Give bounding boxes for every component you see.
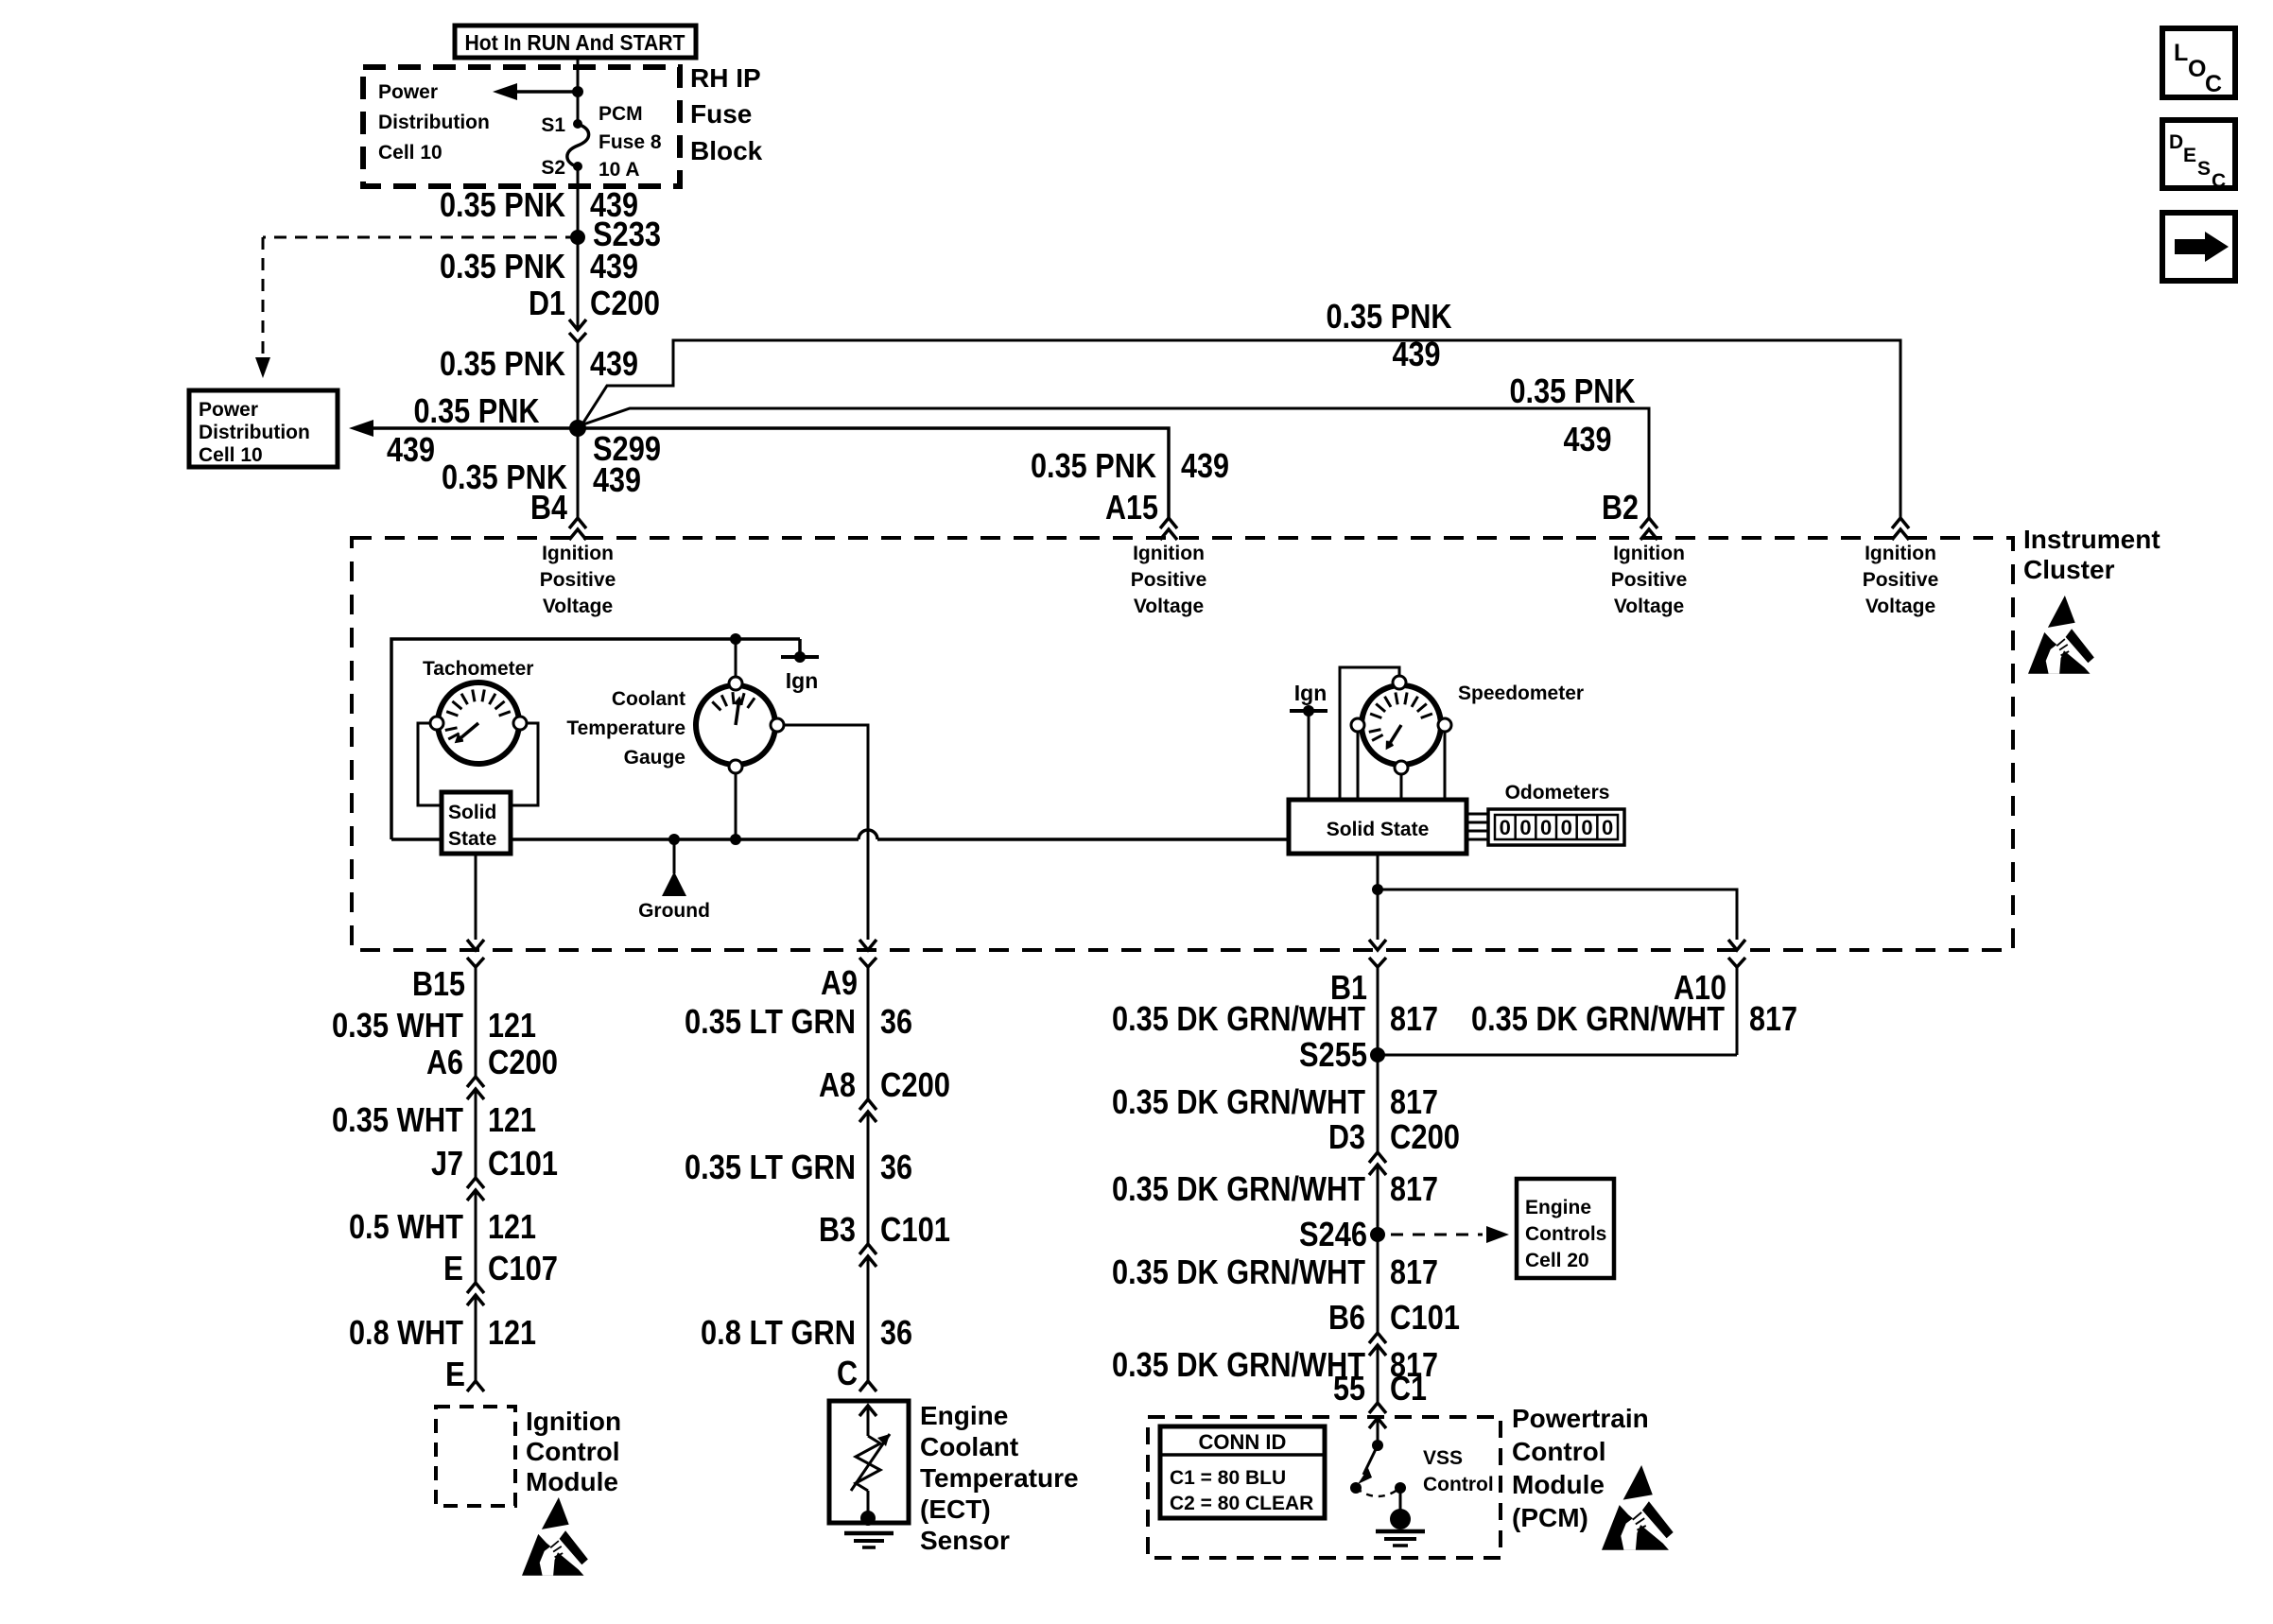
- svg-text:Power: Power: [378, 81, 438, 103]
- connector: instrument cluster A10 terminal: [1728, 940, 1745, 967]
- wire: 0.35 PNK 439 to Power Distribution Cell 10 (left arrow): [349, 420, 578, 437]
- svg-text:C200: C200: [590, 284, 660, 322]
- svg-text:Control: Control: [526, 1437, 620, 1466]
- Ignition Control Module label: [526, 1407, 621, 1496]
- svg-text:Cell 20: Cell 20: [1525, 1250, 1589, 1271]
- connector: C101 pin B3 (in-line): [859, 1244, 876, 1267]
- svg-text:Cell 10: Cell 10: [378, 142, 442, 164]
- svg-text:C101: C101: [488, 1144, 558, 1183]
- Ignition Positive Voltage label: [1131, 543, 1207, 617]
- svg-text:439: 439: [590, 247, 638, 285]
- svg-text:439: 439: [1181, 446, 1229, 485]
- svg-text:Odometers: Odometers: [1505, 782, 1610, 803]
- fuse F8: PCM Fuse 8 10A: [567, 124, 589, 166]
- ECT thermistor element: [851, 1406, 890, 1526]
- svg-text:C1 = 80 BLU: C1 = 80 BLU: [1170, 1467, 1286, 1489]
- svg-text:0.35 DK GRN/WHT: 0.35 DK GRN/WHT: [1112, 1345, 1365, 1384]
- dashed wire from S233 to Power Distribution: [255, 237, 578, 378]
- svg-text:817: 817: [1749, 999, 1797, 1038]
- svg-text:817: 817: [1390, 1253, 1438, 1291]
- svg-text:121: 121: [488, 1207, 536, 1246]
- coolant gauge terminals: [729, 677, 742, 690]
- dashed reference: S246 to Engine Controls Cell 20: [1391, 1226, 1509, 1243]
- wire: tach right terminal to solid state: [511, 723, 538, 805]
- svg-text:Positive: Positive: [1863, 569, 1939, 591]
- splice S255: [1370, 1047, 1385, 1063]
- wire: B15 0.35 WHT 121: [475, 967, 477, 1077]
- svg-text:PCM: PCM: [599, 103, 643, 125]
- svg-text:Module: Module: [1512, 1470, 1605, 1499]
- connector: PCM C1 pin 55: [1369, 1403, 1386, 1413]
- svg-text:C101: C101: [1390, 1298, 1460, 1337]
- svg-text:0.35 DK GRN/WHT: 0.35 DK GRN/WHT: [1471, 999, 1725, 1038]
- Instrument Cluster label: [2023, 525, 2160, 584]
- VSS Control label: [1423, 1447, 1494, 1495]
- svg-text:Power: Power: [199, 399, 258, 421]
- svg-text:0.35 LT GRN: 0.35 LT GRN: [685, 1148, 856, 1186]
- wire: 0.35 PNK 439 S233 to C200: [577, 237, 580, 320]
- svg-text:C107: C107: [488, 1249, 558, 1287]
- svg-text:Ignition: Ignition: [1133, 543, 1205, 564]
- Engine Coolant Temperature (ECT) Sensor box: [829, 1401, 909, 1523]
- svg-text:36: 36: [880, 1002, 912, 1041]
- svg-text:439: 439: [593, 460, 641, 499]
- PCM label: [1512, 1404, 1649, 1532]
- Power Distribution Cell 10 box: [189, 390, 338, 467]
- svg-text:E: E: [443, 1249, 463, 1287]
- svg-text:0: 0: [1540, 816, 1552, 839]
- splice S246: [1370, 1227, 1385, 1242]
- svg-text:0.35 DK GRN/WHT: 0.35 DK GRN/WHT: [1112, 1253, 1365, 1291]
- odometer: [1488, 809, 1624, 845]
- wire: arrow to Power Distribution Cell 10: [493, 83, 583, 100]
- wire: 0.8 LT GRN 36 C101 to ECT: [867, 1256, 870, 1381]
- svg-text:C: C: [2212, 170, 2226, 192]
- svg-text:A6: A6: [426, 1043, 463, 1081]
- svg-text:0: 0: [1602, 816, 1613, 839]
- wire: fuse block feed from Hot box: [577, 58, 580, 124]
- svg-text:S255: S255: [1299, 1035, 1367, 1074]
- Hot In RUN And START box: [455, 26, 696, 58]
- connector: C101 pin B6 (in-line): [1369, 1333, 1386, 1356]
- svg-text:C2 = 80 CLEAR: C2 = 80 CLEAR: [1170, 1493, 1313, 1514]
- wire: 0.35 PNK 439 S299 to instrument cluster A15: [578, 428, 1169, 518]
- svg-text:Module: Module: [526, 1467, 618, 1496]
- svg-text:121: 121: [488, 1006, 536, 1045]
- svg-text:D1: D1: [529, 284, 565, 322]
- svg-text:0.35 PNK: 0.35 PNK: [1327, 297, 1452, 336]
- svg-text:Distribution: Distribution: [199, 422, 310, 443]
- svg-text:S: S: [2197, 158, 2211, 180]
- DESC legend box: [2162, 120, 2235, 188]
- svg-text:0.35 DK GRN/WHT: 0.35 DK GRN/WHT: [1112, 1169, 1365, 1208]
- ground symbol (ECT sensor): [844, 1533, 894, 1547]
- ESD symbol (PCM): [1602, 1465, 1674, 1550]
- svg-text:C: C: [2205, 71, 2222, 97]
- svg-text:0: 0: [1500, 816, 1511, 839]
- svg-text:Cluster: Cluster: [2023, 555, 2115, 584]
- connector: C107 pin E (in-line): [467, 1283, 484, 1305]
- Ign tap (speedometer): [1290, 705, 1327, 800]
- connector: instrument cluster A9 terminal: [859, 940, 876, 967]
- svg-text:0.8 WHT: 0.8 WHT: [349, 1313, 463, 1352]
- svg-text:0.35 PNK: 0.35 PNK: [440, 247, 565, 285]
- splice S233: [570, 230, 585, 245]
- svg-text:Powertrain: Powertrain: [1512, 1404, 1649, 1433]
- Power Distribution Cell 10 label (in fuse block): [378, 81, 490, 164]
- svg-text:Tachometer: Tachometer: [423, 658, 533, 680]
- svg-text:817: 817: [1390, 999, 1438, 1038]
- svg-text:B6: B6: [1328, 1298, 1365, 1337]
- tachometer gauge: [438, 682, 519, 764]
- wire: speedo left terminal: [1357, 733, 1360, 800]
- connector: ECT sensor pin C: [859, 1381, 876, 1391]
- svg-text:0: 0: [1581, 816, 1592, 839]
- fuse value label: [599, 103, 662, 181]
- svg-text:Temperature: Temperature: [920, 1463, 1079, 1493]
- connector: instrument cluster B4 terminal: [569, 518, 586, 540]
- svg-text:Voltage: Voltage: [1134, 596, 1204, 617]
- svg-text:L: L: [2174, 40, 2188, 66]
- svg-text:Fuse: Fuse: [690, 99, 752, 129]
- wire: tach left terminal to solid state: [418, 723, 442, 805]
- connector: instrument cluster A15 terminal: [1160, 518, 1177, 540]
- svg-text:J7: J7: [431, 1144, 463, 1183]
- svg-text:Ignition: Ignition: [1613, 543, 1685, 564]
- svg-text:0.35 WHT: 0.35 WHT: [332, 1100, 463, 1139]
- svg-text:0: 0: [1519, 816, 1531, 839]
- svg-text:817: 817: [1390, 1082, 1438, 1121]
- svg-text:Instrument: Instrument: [2023, 525, 2160, 554]
- tachometer terminals: [430, 717, 443, 730]
- Powertrain Control Module dashed box: [1148, 1417, 1501, 1558]
- svg-text:Coolant: Coolant: [612, 688, 685, 710]
- LOC legend box: [2162, 28, 2235, 97]
- wire: B1 0.35 DK GRN/WHT 817: [1377, 967, 1379, 1152]
- Ignition Positive Voltage label: [540, 543, 616, 617]
- svg-text:Positive: Positive: [540, 569, 616, 591]
- wire: speedo output to A10: [1378, 890, 1737, 940]
- svg-text:Control: Control: [1423, 1474, 1494, 1495]
- wire: S255 to A10 branch: [1378, 1054, 1737, 1057]
- svg-text:A9: A9: [821, 963, 858, 1002]
- svg-text:VSS: VSS: [1423, 1447, 1463, 1469]
- svg-text:D3: D3: [1328, 1117, 1365, 1156]
- svg-text:C: C: [837, 1354, 858, 1392]
- connector: instrument cluster B1 terminal: [1369, 940, 1386, 967]
- connector C200 pin D1 (in-line): [569, 320, 586, 342]
- svg-text:Voltage: Voltage: [543, 596, 613, 617]
- svg-text:Ign: Ign: [786, 668, 819, 693]
- solid state bus (tach/gauge common): [391, 838, 859, 841]
- svg-text:817: 817: [1390, 1169, 1438, 1208]
- wire: 0.35 WHT 121 C200 to C101: [475, 1089, 477, 1178]
- svg-text:0.35 PNK: 0.35 PNK: [1510, 371, 1636, 410]
- svg-text:Ignition: Ignition: [526, 1407, 621, 1436]
- svg-text:Hot In RUN And START: Hot In RUN And START: [465, 30, 685, 55]
- wire: speedo top terminal loop to solid state: [1340, 667, 1399, 800]
- connector: C200 pin A6 (in-line): [467, 1077, 484, 1099]
- VSS control switch: [1350, 1418, 1406, 1511]
- ESD symbol (ignition control module): [522, 1497, 588, 1576]
- svg-text:0.35 WHT: 0.35 WHT: [332, 1006, 463, 1045]
- svg-text:C200: C200: [1390, 1117, 1460, 1156]
- svg-text:E: E: [2183, 145, 2196, 166]
- svg-text:0.5 WHT: 0.5 WHT: [349, 1207, 463, 1246]
- solid state box (speedometer): [1289, 800, 1466, 854]
- svg-text:C101: C101: [880, 1210, 950, 1249]
- wire: A9 0.35 LT GRN 36: [867, 967, 870, 1099]
- svg-text:(PCM): (PCM): [1512, 1503, 1588, 1532]
- svg-text:A15: A15: [1105, 488, 1158, 527]
- svg-text:B15: B15: [412, 964, 465, 1003]
- svg-text:0.35 PNK: 0.35 PNK: [440, 185, 565, 224]
- svg-text:Distribution: Distribution: [378, 112, 490, 133]
- svg-text:S2: S2: [541, 157, 565, 179]
- speedometer gauge: [1362, 685, 1441, 765]
- wire: 0.35 PNK 439 C200 to S299: [577, 342, 580, 428]
- svg-text:0.35 LT GRN: 0.35 LT GRN: [685, 1002, 856, 1041]
- svg-text:Coolant: Coolant: [920, 1432, 1018, 1461]
- ground symbol (VSS): [1376, 1509, 1425, 1546]
- svg-text:0.35 PNK: 0.35 PNK: [440, 344, 565, 383]
- svg-text:Fuse 8: Fuse 8: [599, 131, 662, 153]
- svg-text:439: 439: [1393, 335, 1441, 373]
- svg-text:36: 36: [880, 1148, 912, 1186]
- wire: tach solid state to B15: [475, 854, 477, 940]
- connector: instrument cluster B15 terminal: [467, 940, 484, 967]
- wire: speedo right terminal: [1444, 733, 1447, 800]
- svg-text:121: 121: [488, 1313, 536, 1352]
- svg-text:B3: B3: [819, 1210, 856, 1249]
- svg-text:B4: B4: [530, 488, 567, 527]
- svg-text:0.35 DK GRN/WHT: 0.35 DK GRN/WHT: [1112, 999, 1365, 1038]
- Ignition Positive Voltage label: [1863, 543, 1939, 617]
- Instrument Cluster dashed box: [352, 538, 2013, 950]
- RH IP Fuse Block dashed box: [363, 67, 680, 186]
- svg-text:Voltage: Voltage: [1614, 596, 1684, 617]
- svg-text:55: 55: [1333, 1369, 1365, 1408]
- svg-text:B2: B2: [1602, 488, 1639, 527]
- wire: 0.35 PNK 439 S299 to instrument cluster (right): [583, 340, 1900, 518]
- wire: Ign tap (coolant gauge): [781, 639, 819, 663]
- svg-text:Sensor: Sensor: [920, 1526, 1010, 1555]
- svg-text:S246: S246: [1299, 1215, 1367, 1253]
- connector: C200 pin A8 (in-line): [859, 1099, 876, 1122]
- speedometer terminals: [1393, 676, 1406, 689]
- wire: coolant gauge top terminal to rail: [735, 639, 737, 676]
- connector: C200 pin D3 (in-line): [1369, 1152, 1386, 1175]
- svg-text:439: 439: [590, 344, 638, 383]
- svg-text:O: O: [2188, 56, 2206, 82]
- coolant temperature gauge: [696, 685, 775, 765]
- svg-text:121: 121: [488, 1100, 536, 1139]
- connector: C101 pin J7 (in-line): [467, 1178, 484, 1201]
- Engine Controls Cell 20 box: [1517, 1179, 1614, 1278]
- wire: 0.35 DK GRN/WHT 817 C101 to PCM: [1377, 1345, 1379, 1403]
- svg-text:Ground: Ground: [638, 900, 710, 922]
- svg-text:Control: Control: [1512, 1437, 1606, 1466]
- svg-text:Ignition: Ignition: [1865, 543, 1936, 564]
- svg-text:0.35 DK GRN/WHT: 0.35 DK GRN/WHT: [1112, 1082, 1365, 1121]
- wire: 0.35 LT GRN 36 C200 to C101: [867, 1112, 870, 1244]
- svg-text:Controls: Controls: [1525, 1223, 1606, 1245]
- svg-text:Cell 10: Cell 10: [199, 444, 263, 466]
- arrow legend box: [2162, 213, 2235, 281]
- svg-text:Positive: Positive: [1131, 569, 1207, 591]
- bus hop over A9 wire: [859, 830, 877, 839]
- splice S299: [569, 420, 586, 437]
- solid state box (tachometer): [442, 792, 511, 854]
- svg-text:Ign: Ign: [1294, 681, 1327, 705]
- svg-text:A8: A8: [819, 1065, 856, 1104]
- svg-text:36: 36: [880, 1313, 912, 1352]
- wire: speedo bottom terminal: [1400, 774, 1403, 800]
- connector: ICM pin E: [467, 1381, 484, 1391]
- Ignition Positive Voltage label: [1611, 543, 1688, 617]
- svg-text:0.8 LT GRN: 0.8 LT GRN: [701, 1313, 856, 1352]
- svg-text:Positive: Positive: [1611, 569, 1688, 591]
- wire: 0.5 WHT 121 C101 to C107: [475, 1190, 477, 1283]
- wire: gauge supply rail: [391, 639, 800, 839]
- svg-text:D: D: [2169, 131, 2183, 153]
- svg-text:E: E: [445, 1355, 465, 1393]
- svg-text:10 A: 10 A: [599, 159, 640, 181]
- svg-text:Engine: Engine: [1525, 1197, 1591, 1218]
- odometer link lines: [1466, 814, 1488, 839]
- svg-text:Temperature: Temperature: [566, 717, 685, 739]
- svg-text:RH IP: RH IP: [690, 63, 761, 93]
- svg-text:C200: C200: [880, 1065, 950, 1104]
- wire: 0.35 DK GRN/WHT 817 C200 to C101: [1377, 1165, 1379, 1333]
- svg-text:S1: S1: [541, 114, 565, 136]
- wire: coolant gauge bottom terminal to bus: [735, 774, 737, 839]
- svg-text:Speedometer: Speedometer: [1458, 682, 1584, 704]
- wire: A10 0.35 DK GRN/WHT 817: [1736, 967, 1739, 1055]
- wire: 0.35 PNK 439 S299 to B4: [577, 428, 580, 518]
- svg-text:(ECT): (ECT): [920, 1494, 991, 1524]
- svg-text:0.35 PNK: 0.35 PNK: [1031, 446, 1156, 485]
- svg-text:Ignition: Ignition: [542, 543, 614, 564]
- wire: 0.35 PNK 439 fuse to S233: [577, 166, 580, 237]
- svg-text:State: State: [448, 828, 496, 850]
- ground symbol (cluster): [662, 839, 686, 896]
- svg-text:439: 439: [1564, 420, 1612, 458]
- RH IP Fuse Block label: [690, 63, 763, 165]
- svg-text:Block: Block: [690, 136, 763, 165]
- svg-text:439: 439: [387, 430, 435, 469]
- svg-text:Voltage: Voltage: [1865, 596, 1935, 617]
- wire: 0.8 WHT 121 C107 to ICM: [475, 1295, 477, 1381]
- connector: instrument cluster right feed terminal: [1892, 518, 1909, 540]
- ECT Sensor label: [920, 1401, 1079, 1555]
- svg-text:Solid: Solid: [448, 802, 496, 823]
- Coolant Temperature Gauge label: [566, 688, 685, 769]
- svg-text:0.35 PNK: 0.35 PNK: [414, 391, 540, 430]
- ESD symbol (instrument cluster): [2028, 596, 2094, 674]
- CONN ID table: [1160, 1426, 1325, 1518]
- svg-text:Engine: Engine: [920, 1401, 1008, 1430]
- svg-text:C200: C200: [488, 1043, 558, 1081]
- Ignition Control Module dashed box: [436, 1407, 515, 1506]
- svg-text:Solid State: Solid State: [1327, 819, 1430, 840]
- svg-text:Gauge: Gauge: [624, 747, 685, 769]
- svg-text:CONN ID: CONN ID: [1199, 1430, 1287, 1454]
- wire: 0.35 PNK 439 S299 to instrument cluster B2: [583, 408, 1649, 518]
- wire: coolant gauge output to A9: [785, 725, 868, 940]
- connector: instrument cluster B2 terminal: [1640, 518, 1657, 540]
- svg-text:0: 0: [1561, 816, 1572, 839]
- wire: speedo solid state to B1: [1377, 854, 1379, 940]
- svg-text:C1: C1: [1390, 1369, 1427, 1408]
